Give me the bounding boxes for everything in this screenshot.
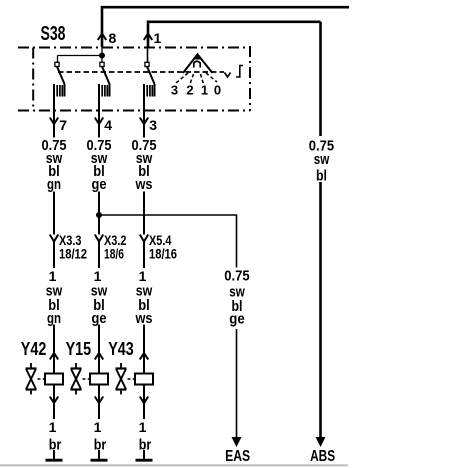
arrow out of valve (column 3) (140, 397, 148, 404)
ground wire pin 1 and color br (column 3) (135, 419, 153, 453)
arrow into valve coil (column 3) (140, 353, 148, 360)
svg-text:1: 1 (49, 419, 57, 435)
ground wire pin 1 and color br (column 2) (90, 419, 108, 453)
arrow out of valve (column 2) (95, 397, 103, 404)
svg-text:S38: S38 (41, 23, 66, 45)
valve Y42 coil (45, 374, 63, 385)
wire column 3 to connector (143, 192, 145, 235)
label EAS (225, 448, 250, 465)
mechanical linkage (dashed) (58, 71, 224, 73)
svg-text:1: 1 (201, 83, 208, 98)
ground symbol (column 1) (46, 450, 63, 460)
svg-text:8: 8 (109, 30, 117, 46)
switch contact 3 of S38 (144, 62, 155, 111)
wire column 3 upper segment (143, 111, 145, 138)
detent position labels 3 2 1 0 (171, 83, 221, 98)
svg-text:18/6: 18/6 (104, 247, 124, 262)
wire column 3 below valve (143, 385, 145, 420)
connector X5.4 pin 18/16 (140, 233, 178, 262)
wire column 1 below valve (53, 385, 55, 420)
label ABS (310, 448, 335, 465)
svg-text:br: br (94, 436, 107, 453)
svg-text:ge: ge (92, 176, 107, 193)
junction node on column 2 (96, 212, 102, 218)
connector X3.3 pin 18/12 (50, 233, 87, 262)
wire column 2 into valve (98, 325, 100, 374)
rotary detent cam of S38 (183, 53, 213, 74)
arrow to EAS (232, 437, 242, 447)
valve Y42 body (hourglass) (26, 363, 46, 395)
valve Y15 label (66, 339, 92, 359)
valve Y43 label (108, 339, 134, 359)
wire column 1 into valve (53, 325, 55, 374)
svg-text:sw: sw (314, 151, 330, 168)
wire to ABS (319, 22, 322, 438)
ground symbol (column 3) (136, 450, 153, 460)
wire label 0.75 sw bl ws (column 3) (132, 137, 157, 193)
arrow to ABS (316, 437, 326, 447)
wire from pin 1 to third switch contact (147, 47, 149, 63)
pin 3 arrow out of S38 (column 3) (140, 117, 158, 133)
svg-text:Y15: Y15 (66, 339, 92, 359)
wire branch to EAS (99, 215, 237, 438)
svg-text:Y43: Y43 (108, 339, 134, 359)
svg-text:0.75: 0.75 (224, 268, 249, 285)
ground symbol (column 2) (91, 450, 108, 460)
svg-text:1: 1 (94, 419, 102, 435)
switch contact 1 of S38 (54, 62, 65, 111)
svg-text:br: br (139, 436, 152, 453)
wire column 2 below valve (98, 385, 100, 420)
svg-text:18/12: 18/12 (59, 247, 87, 262)
pin 4 arrow out of S38 (column 2) (95, 117, 113, 133)
svg-text:ge: ge (229, 311, 245, 328)
svg-text:br: br (49, 436, 62, 453)
svg-text:ge: ge (92, 310, 107, 327)
svg-text:ABS: ABS (310, 448, 335, 465)
linkage arrowhead (225, 73, 231, 78)
wire label 0.75 sw bl (ABS branch) (309, 138, 334, 185)
valve pin 1 and wire colors (column 3) (135, 268, 153, 327)
svg-text:gn: gn (47, 310, 61, 327)
valve Y15 coil (90, 374, 108, 385)
wire column 2 upper segment (98, 111, 100, 138)
svg-text:ws: ws (135, 310, 153, 327)
valve Y43 coil (135, 374, 153, 385)
pin 1 arrow into S38 (144, 30, 162, 46)
svg-text:18/16: 18/16 (149, 247, 177, 262)
svg-text:7: 7 (59, 117, 67, 133)
wire label 0.75 sw bl ge (column 2) (87, 137, 112, 193)
wire column 3 below connector (143, 242, 145, 269)
valve pin 1 and wire colors (column 1) (46, 268, 63, 327)
pin 7 arrow out of S38 (column 1) (50, 117, 68, 133)
arrow into valve coil (column 1) (50, 353, 58, 360)
arrow out of valve (column 1) (50, 397, 58, 404)
valve Y42 label (21, 339, 47, 359)
label S38 (41, 23, 66, 45)
wire column 1 below connector (53, 242, 55, 269)
valve Y15 body (hourglass) (71, 363, 91, 395)
wire column 1 to connector (53, 192, 55, 235)
svg-text:0: 0 (214, 83, 221, 98)
junction dot pin8 link (99, 53, 105, 59)
svg-text:gn: gn (47, 176, 61, 193)
pin 8 arrow into S38 (98, 30, 117, 46)
svg-text:2: 2 (186, 83, 193, 98)
bottom separator line (0, 464, 348, 466)
wire column 2 to connector (98, 192, 100, 235)
wire column 3 into valve (143, 325, 145, 374)
wire label 0.75 sw bl gn (column 1) (42, 137, 67, 193)
svg-text:1: 1 (154, 30, 162, 46)
svg-text:1: 1 (139, 419, 147, 435)
wire bus from S38 pin 1 to ABS drop (148, 22, 321, 47)
detent position rays (dashed) (176, 73, 217, 84)
svg-text:bl: bl (316, 168, 327, 185)
svg-text:EAS: EAS (225, 448, 250, 465)
wire column 1 upper segment (53, 111, 55, 138)
detent latch symbol (236, 66, 243, 78)
switch unit S38 boundary (dash-dot box) (18, 46, 250, 111)
valve pin 1 and wire colors (column 2) (91, 268, 108, 327)
wire bus from S38 pin 8 to top right (102, 7, 349, 47)
svg-text:3: 3 (149, 117, 157, 133)
valve Y43 body (hourglass) (116, 363, 136, 395)
wire column 2 below connector (98, 242, 100, 269)
svg-text:3: 3 (171, 83, 178, 98)
ground wire pin 1 and color br (column 1) (45, 419, 63, 453)
svg-text:4: 4 (104, 117, 112, 133)
svg-text:ws: ws (135, 176, 153, 193)
switch contact 2 of S38 (99, 62, 110, 111)
wire label 0.75 sw bl ge (EAS branch) (224, 268, 249, 328)
internal wire from pin 8 to switch contacts (58, 47, 103, 63)
connector X3.2 pin 18/6 (95, 233, 127, 262)
svg-text:Y42: Y42 (21, 339, 47, 359)
arrow into valve coil (column 2) (95, 353, 103, 360)
